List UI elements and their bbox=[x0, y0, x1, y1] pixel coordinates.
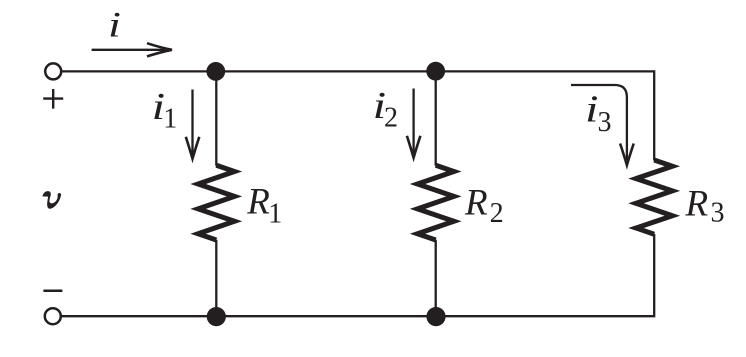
label i1 bbox=[152, 86, 178, 135]
wire branch R1 lower bbox=[215, 240, 217, 316]
resistor R2 bbox=[418, 165, 454, 240]
svg-text:R: R bbox=[464, 182, 488, 223]
resistor R3 bbox=[636, 160, 672, 234]
wire bottom rail with right edge lower segment bbox=[61, 234, 654, 316]
node C bottom R1 junction bbox=[207, 307, 226, 326]
svg-text:R: R bbox=[685, 183, 709, 224]
plus sign bbox=[43, 89, 63, 109]
wire branch R2 lower bbox=[435, 240, 437, 316]
svg-text:3: 3 bbox=[711, 198, 725, 229]
current arrow i1 bbox=[186, 90, 200, 159]
label R1 bbox=[246, 182, 282, 230]
current arrow i3 (curved) bbox=[571, 85, 634, 165]
wire top rail with right edge upper segment bbox=[61, 71, 654, 160]
svg-text:1: 1 bbox=[268, 199, 282, 230]
svg-text:i: i bbox=[108, 5, 121, 45]
resistor R1 bbox=[198, 165, 234, 240]
current arrow i2 bbox=[407, 89, 421, 158]
node D bottom R2 junction bbox=[426, 307, 445, 326]
label R3 bbox=[685, 183, 725, 228]
current arrow i bbox=[92, 43, 172, 56]
svg-text:2: 2 bbox=[384, 102, 398, 133]
wire branch R2 upper bbox=[435, 71, 437, 165]
label i bbox=[108, 5, 121, 45]
terminal top-left bbox=[45, 63, 61, 79]
svg-text:i: i bbox=[585, 89, 599, 131]
label R2 bbox=[464, 182, 504, 229]
minus sign bbox=[43, 290, 62, 293]
node A top R1 junction bbox=[206, 62, 225, 81]
svg-text:2: 2 bbox=[490, 198, 504, 229]
svg-text:R: R bbox=[246, 182, 270, 223]
svg-text:1: 1 bbox=[163, 104, 177, 135]
node B top R2 junction bbox=[426, 62, 445, 81]
label i2 bbox=[373, 85, 398, 134]
svg-text:3: 3 bbox=[598, 107, 612, 138]
wire branch R1 upper bbox=[215, 71, 217, 165]
label i3 bbox=[585, 89, 612, 139]
terminal bottom-left bbox=[45, 308, 61, 324]
label v bbox=[42, 191, 61, 209]
